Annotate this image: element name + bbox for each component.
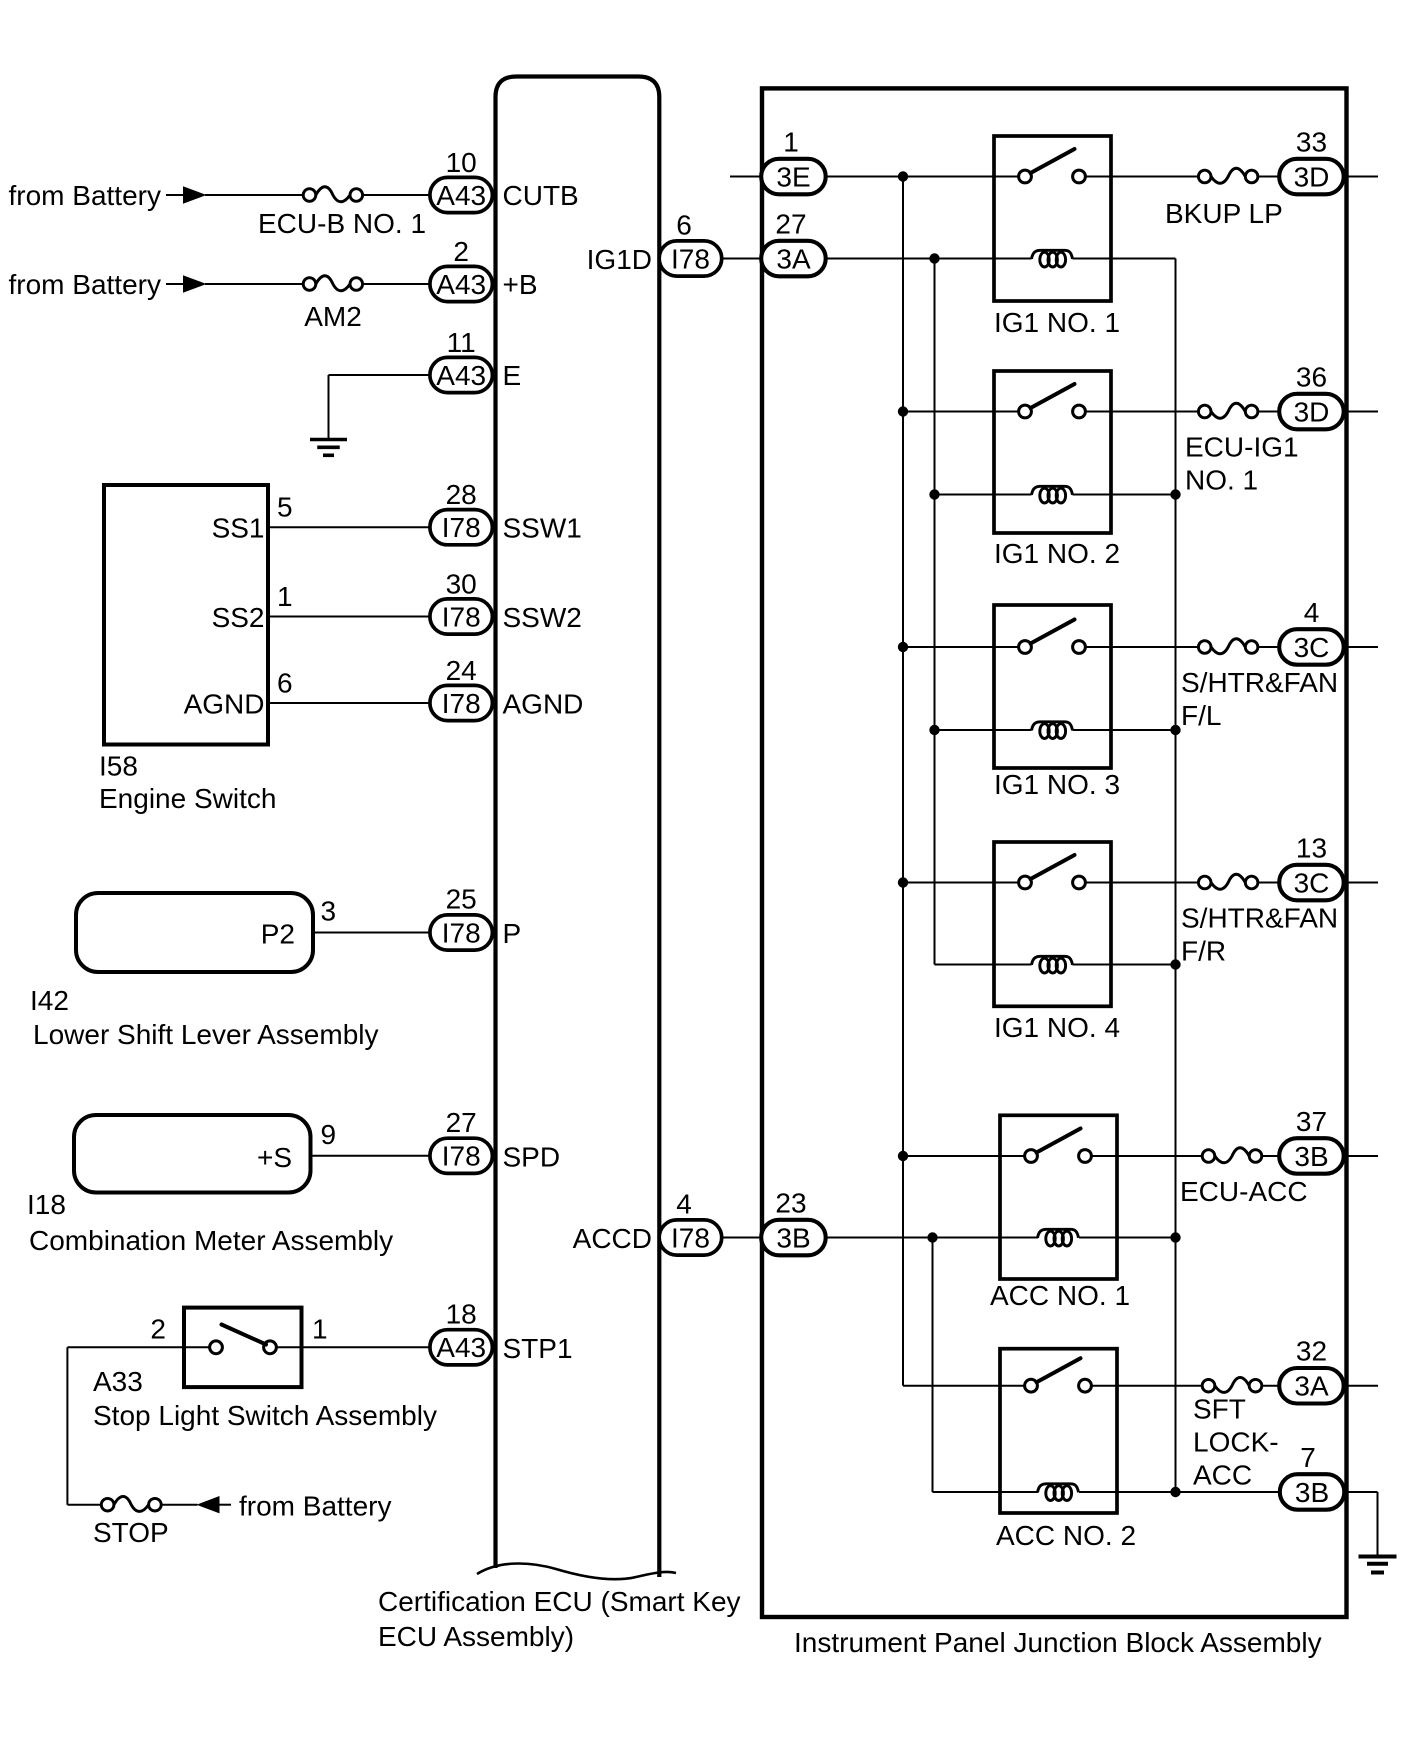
- svg-text:from Battery: from Battery: [239, 1491, 391, 1522]
- junction: [929, 253, 939, 263]
- fuse ECU-ACC: [1202, 1148, 1262, 1163]
- wire: [903, 411, 994, 413]
- wire: [1079, 1237, 1176, 1239]
- wire: [329, 374, 431, 376]
- wire (switch feed bus): [902, 177, 904, 1386]
- from Battery source (CUTB feed): [9, 180, 207, 211]
- svg-text:13: 13: [1296, 833, 1327, 864]
- wire (coil feed bus upper): [934, 259, 936, 965]
- svg-text:AGND: AGND: [503, 689, 584, 720]
- relay IG1 NO. 2 switch: [994, 411, 1019, 413]
- connector 3D pin 36: [1279, 394, 1344, 430]
- wire: [1344, 1385, 1378, 1387]
- connector 3D pin 33: [1279, 159, 1344, 195]
- wire: [1111, 411, 1198, 413]
- fuse ECU-B NO. 1: [303, 187, 362, 202]
- svg-text:SSW2: SSW2: [503, 602, 582, 633]
- svg-text:P2: P2: [261, 919, 295, 950]
- relay ACC NO. 1 switch: [1000, 1155, 1025, 1157]
- junction: [898, 406, 908, 416]
- svg-text:ACC: ACC: [1193, 1460, 1252, 1491]
- wire: [1344, 411, 1378, 413]
- wire: [903, 646, 994, 648]
- junction: [898, 1151, 908, 1161]
- ground: [310, 440, 347, 456]
- svg-text:3B: 3B: [1294, 1141, 1328, 1172]
- combination meter assembly I18 box: [74, 1115, 311, 1193]
- svg-text:S/HTR&FAN: S/HTR&FAN: [1181, 903, 1338, 934]
- wire: [1344, 1155, 1378, 1157]
- svg-text:1: 1: [277, 581, 293, 612]
- svg-text:25: 25: [446, 884, 477, 915]
- svg-text:SPD: SPD: [503, 1141, 561, 1172]
- wire: [1116, 1385, 1202, 1387]
- svg-text:ECU Assembly): ECU Assembly): [378, 1621, 574, 1652]
- wire: [1073, 964, 1176, 966]
- junction: [1170, 725, 1180, 735]
- svg-text:3E: 3E: [776, 161, 810, 192]
- svg-text:27: 27: [775, 209, 806, 240]
- svg-text:IG1 NO. 1: IG1 NO. 1: [994, 307, 1120, 338]
- svg-text:STOP: STOP: [93, 1517, 169, 1548]
- relay ACC NO. 2 coil: [1038, 1484, 1079, 1501]
- svg-text:3: 3: [321, 896, 337, 927]
- svg-text:28: 28: [446, 479, 477, 510]
- wire: [826, 258, 1032, 260]
- svg-text:23: 23: [775, 1188, 806, 1219]
- svg-text:SSW1: SSW1: [503, 513, 582, 544]
- connector 3B pin 37: [1279, 1138, 1344, 1174]
- svg-text:4: 4: [676, 1189, 692, 1220]
- connector 3C pin 13: [1279, 865, 1344, 901]
- svg-text:2: 2: [453, 236, 469, 267]
- svg-text:CUTB: CUTB: [503, 180, 579, 211]
- svg-text:E: E: [503, 360, 522, 391]
- svg-text:ECU-IG1: ECU-IG1: [1185, 432, 1299, 463]
- connector I78 pin 30: [430, 599, 493, 634]
- relay IG1 NO. 4 switch: [994, 882, 1019, 884]
- ground: [1359, 1557, 1397, 1573]
- wire: [826, 176, 994, 178]
- connector A43 pin 18: [430, 1330, 493, 1365]
- relay IG1 NO. 1 switch: [994, 176, 1019, 178]
- svg-text:BKUP LP: BKUP LP: [1165, 198, 1283, 229]
- junction: [927, 1232, 937, 1242]
- wire: [1258, 882, 1279, 884]
- wire: [935, 494, 1032, 496]
- wire: [1344, 1491, 1377, 1493]
- svg-text:SS1: SS1: [212, 513, 265, 544]
- Instrument Panel Junction Block Assembly outline: [762, 88, 1347, 1617]
- relay IG1 NO. 1 box: [994, 136, 1111, 301]
- svg-text:A43: A43: [436, 360, 486, 391]
- svg-text:Stop Light Switch Assembly: Stop Light Switch Assembly: [93, 1400, 437, 1431]
- svg-text:2: 2: [150, 1314, 166, 1345]
- fuse S/HTR&FAN F/L: [1198, 639, 1258, 654]
- fuse BKUP LP: [1198, 168, 1258, 183]
- svg-text:24: 24: [446, 655, 477, 686]
- svg-text:P: P: [503, 918, 522, 949]
- connector A43 pin 2: [430, 266, 493, 301]
- svg-text:ACC NO. 2: ACC NO. 2: [996, 1520, 1136, 1551]
- connector 3B pin 23: [761, 1220, 826, 1256]
- svg-text:3A: 3A: [776, 243, 811, 274]
- svg-text:6: 6: [277, 668, 293, 699]
- svg-text:7: 7: [1300, 1442, 1316, 1473]
- relay IG1 NO. 3 switch: [994, 646, 1019, 648]
- fuse S/HTR&FAN F/R: [1198, 874, 1258, 889]
- svg-text:I78: I78: [671, 1222, 710, 1253]
- junction: [929, 725, 939, 735]
- svg-text:Instrument Panel Junction Bloc: Instrument Panel Junction Block Assembly: [794, 1627, 1322, 1658]
- svg-text:ACC NO. 1: ACC NO. 1: [990, 1280, 1130, 1311]
- fuse SFT LOCK-ACC: [1202, 1377, 1262, 1392]
- label A33 Stop Light Switch Assembly: [93, 1366, 437, 1431]
- wire (coil return bus): [1175, 259, 1177, 1493]
- label Certification ECU (Smart Key ECU Assembly): [378, 1586, 741, 1652]
- relay ACC NO. 2 switch: [1000, 1385, 1025, 1387]
- wire: [722, 1237, 763, 1239]
- svg-text:LOCK-: LOCK-: [1193, 1427, 1279, 1458]
- svg-text:A43: A43: [436, 180, 486, 211]
- svg-text:I18: I18: [27, 1189, 66, 1220]
- svg-text:IG1D: IG1D: [587, 244, 652, 275]
- svg-text:S/HTR&FAN: S/HTR&FAN: [1181, 667, 1338, 698]
- wire: [903, 1155, 1000, 1157]
- wire: [268, 702, 430, 704]
- label I18 Combination Meter Assembly: [27, 1189, 393, 1256]
- label S/HTR&FAN F/L: [1181, 667, 1338, 731]
- connector A43 pin 11: [430, 357, 493, 392]
- connector I78 pin 6: [659, 241, 722, 276]
- wire: [903, 1385, 1000, 1387]
- svg-text:SS2: SS2: [212, 602, 265, 633]
- svg-text:STP1: STP1: [503, 1333, 573, 1364]
- wire: [1262, 1155, 1280, 1157]
- svg-text:Certification ECU (Smart Key: Certification ECU (Smart Key: [378, 1586, 741, 1617]
- svg-text:36: 36: [1296, 362, 1327, 393]
- svg-text:F/L: F/L: [1181, 700, 1221, 731]
- svg-text:3D: 3D: [1294, 396, 1330, 427]
- wire: [1073, 494, 1176, 496]
- label SFT LOCK-ACC: [1193, 1394, 1279, 1491]
- svg-text:Combination Meter Assembly: Combination Meter Assembly: [29, 1225, 393, 1256]
- svg-text:3B: 3B: [776, 1222, 810, 1253]
- connector 3E pin 1: [761, 159, 826, 195]
- wire: [205, 194, 303, 196]
- svg-text:I78: I78: [671, 243, 710, 274]
- wire: [1258, 411, 1279, 413]
- stop light switch contacts: [184, 1346, 210, 1348]
- wire: [1111, 646, 1198, 648]
- svg-text:+S: +S: [257, 1142, 292, 1173]
- relay ACC NO. 1 box: [1000, 1115, 1117, 1279]
- connector I78 pin 4: [659, 1220, 722, 1255]
- wire: [1262, 1385, 1280, 1387]
- fuse ECU-IG1 NO. 1: [1198, 403, 1258, 418]
- svg-text:Lower Shift Lever Assembly: Lower Shift Lever Assembly: [33, 1019, 379, 1050]
- junction: [1170, 1487, 1180, 1497]
- wire: [302, 1346, 431, 1348]
- junction: [1170, 489, 1180, 499]
- wire: [1073, 729, 1176, 731]
- svg-text:A43: A43: [436, 1332, 486, 1363]
- svg-text:3B: 3B: [1295, 1477, 1329, 1508]
- connector I78 pin 28: [430, 510, 493, 545]
- connector 3A pin 27: [761, 241, 826, 276]
- svg-text:30: 30: [446, 569, 477, 600]
- from Battery source (STOP feed): [197, 1491, 392, 1522]
- wire: [1079, 1491, 1280, 1493]
- wire: [933, 1491, 1039, 1493]
- svg-text:I78: I78: [442, 1141, 481, 1172]
- wire: [66, 1347, 68, 1504]
- wire: [1344, 176, 1378, 178]
- wire: [328, 375, 330, 439]
- wire: [1116, 1155, 1202, 1157]
- svg-text:from Battery: from Battery: [9, 269, 161, 300]
- wire: [722, 258, 763, 260]
- lower shift lever assembly I42 box: [76, 893, 313, 972]
- svg-text:+B: +B: [503, 269, 538, 300]
- junction: [929, 489, 939, 499]
- svg-text:Engine Switch: Engine Switch: [99, 783, 276, 814]
- svg-text:I78: I78: [442, 688, 481, 719]
- connector I78 pin 25: [430, 915, 493, 950]
- svg-text:1: 1: [783, 127, 799, 158]
- svg-text:SFT: SFT: [1193, 1394, 1246, 1425]
- wire: [1344, 646, 1378, 648]
- fuse STOP: [101, 1496, 161, 1511]
- junction: [1170, 959, 1180, 969]
- wire: [268, 526, 430, 528]
- connector 3A pin 32: [1279, 1368, 1344, 1404]
- svg-text:ECU-B NO. 1: ECU-B NO. 1: [258, 208, 426, 239]
- svg-text:9: 9: [321, 1119, 337, 1150]
- relay IG1 NO. 4 box: [994, 842, 1111, 1006]
- wire: [1377, 1492, 1379, 1557]
- svg-text:AGND: AGND: [184, 689, 265, 720]
- label ECU-IG1 NO. 1: [1185, 432, 1299, 496]
- wire: [903, 882, 994, 884]
- relay IG1 NO. 3 coil: [1032, 722, 1073, 739]
- wire: [1111, 176, 1198, 178]
- wire: [935, 964, 1032, 966]
- wire: [1258, 646, 1279, 648]
- wire: [1073, 258, 1176, 260]
- connector I78 pin 27: [430, 1138, 493, 1173]
- svg-text:6: 6: [676, 210, 692, 241]
- junction: [1170, 1232, 1180, 1242]
- svg-text:5: 5: [277, 492, 293, 523]
- svg-text:IG1 NO. 4: IG1 NO. 4: [994, 1012, 1120, 1043]
- svg-text:from Battery: from Battery: [9, 180, 161, 211]
- wire: [935, 729, 1032, 731]
- svg-text:3D: 3D: [1294, 161, 1330, 192]
- svg-text:18: 18: [446, 1298, 477, 1329]
- ECU break (wavy) line: [477, 1564, 676, 1580]
- svg-text:3A: 3A: [1294, 1371, 1329, 1402]
- fuse AM2: [303, 276, 362, 291]
- relay IG1 NO. 3 box: [994, 605, 1111, 768]
- wire: [1258, 176, 1279, 178]
- label S/HTR&FAN F/R: [1181, 903, 1338, 967]
- svg-text:I78: I78: [442, 601, 481, 632]
- svg-text:33: 33: [1296, 127, 1327, 158]
- relay IG1 NO. 4 coil: [1032, 956, 1073, 973]
- svg-text:A43: A43: [436, 269, 486, 300]
- svg-text:IG1 NO. 2: IG1 NO. 2: [994, 538, 1120, 569]
- svg-text:37: 37: [1296, 1106, 1327, 1137]
- junction: [898, 171, 908, 181]
- svg-text:3C: 3C: [1294, 867, 1330, 898]
- label I42 Lower Shift Lever Assembly: [30, 985, 379, 1050]
- junction: [898, 642, 908, 652]
- relay ACC NO. 2 box: [1000, 1349, 1117, 1513]
- wire: [826, 1237, 1038, 1239]
- label I58 Engine Switch: [99, 751, 276, 815]
- svg-text:IG1 NO. 3: IG1 NO. 3: [994, 769, 1120, 800]
- svg-text:27: 27: [446, 1107, 477, 1138]
- svg-text:I78: I78: [442, 512, 481, 543]
- engine switch I58 box: [104, 485, 268, 745]
- wire (coil feed bus lower): [932, 1238, 934, 1493]
- svg-text:A33: A33: [93, 1366, 143, 1397]
- junction: [898, 877, 908, 887]
- relay IG1 NO. 2 coil: [1032, 486, 1073, 503]
- relay IG1 NO. 1 coil: [1032, 250, 1073, 267]
- wire: [67, 1346, 184, 1348]
- svg-text:F/R: F/R: [1181, 936, 1226, 967]
- svg-text:4: 4: [1304, 597, 1320, 628]
- wire: [161, 1504, 197, 1506]
- svg-text:10: 10: [446, 147, 477, 178]
- svg-text:AM2: AM2: [304, 301, 362, 332]
- connector 3B pin 7: [1280, 1474, 1345, 1510]
- wire: [67, 1504, 101, 1506]
- stop light switch A33 box: [184, 1308, 302, 1388]
- svg-text:I42: I42: [30, 985, 69, 1016]
- svg-text:1: 1: [312, 1314, 328, 1345]
- wire: [363, 194, 430, 196]
- svg-text:32: 32: [1296, 1336, 1327, 1367]
- svg-text:11: 11: [447, 327, 476, 358]
- svg-text:ACCD: ACCD: [573, 1223, 652, 1254]
- wire: [1111, 882, 1198, 884]
- wire: [268, 616, 430, 618]
- relay ACC NO. 1 coil: [1038, 1229, 1079, 1246]
- svg-text:ECU-ACC: ECU-ACC: [1180, 1176, 1308, 1207]
- wire: [313, 932, 430, 934]
- svg-text:3C: 3C: [1294, 632, 1330, 663]
- wire: [1344, 882, 1378, 884]
- svg-text:I78: I78: [442, 917, 481, 948]
- wire: [730, 176, 763, 178]
- relay IG1 NO. 2 box: [994, 371, 1111, 533]
- svg-text:I58: I58: [99, 751, 138, 782]
- svg-text:NO. 1: NO. 1: [1185, 465, 1258, 496]
- wire: [363, 283, 430, 285]
- connector 3C pin 4: [1279, 629, 1344, 665]
- wire: [205, 283, 303, 285]
- connector I78 pin 24: [430, 685, 493, 720]
- from Battery source (+B feed): [9, 269, 207, 300]
- wire: [311, 1155, 431, 1157]
- connector A43 pin 10: [430, 177, 493, 212]
- Certification ECU (Smart Key ECU Assembly) outline: [496, 77, 660, 1578]
